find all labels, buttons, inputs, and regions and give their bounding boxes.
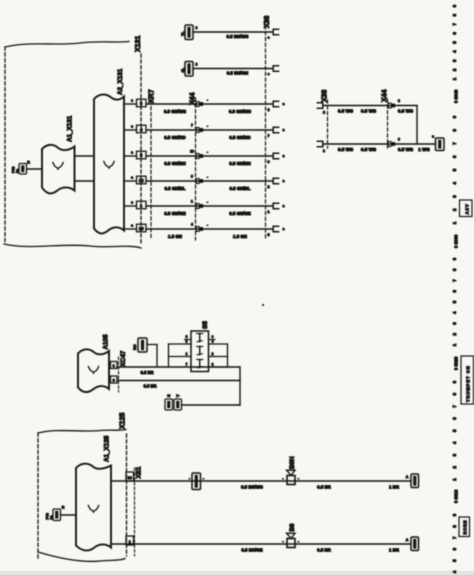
wire track 4 stub A2 to pin <box>124 180 137 182</box>
svg-text:a: a <box>131 99 133 103</box>
control unit dashed box X131 <box>5 42 129 48</box>
svg-text:0.5 WS: 0.5 WS <box>338 147 353 152</box>
svg-text:0.5 BR: 0.5 BR <box>140 370 153 375</box>
svg-text:1: 1 <box>323 149 325 153</box>
svg-text:1 WS: 1 WS <box>418 147 429 152</box>
svg-text:3: 3 <box>186 340 188 344</box>
horn wire 2 <box>111 543 411 545</box>
svg-text:R: R <box>27 161 30 165</box>
inline connector box on wire 1 <box>192 473 201 490</box>
svg-text:a: a <box>131 151 133 155</box>
svg-text:7L: 7L <box>180 31 185 36</box>
svg-text:2: 2 <box>323 111 325 115</box>
svg-text:+: + <box>267 73 269 77</box>
svg-text:a: a <box>283 227 285 231</box>
svg-text:-: - <box>207 223 208 227</box>
svg-text:0.5 GN/WS: 0.5 GN/WS <box>229 109 251 114</box>
terminal box A (wire 1) <box>411 474 419 488</box>
horn B9 <box>287 539 295 548</box>
svg-text:9: 9 <box>398 138 400 142</box>
connector XC47 dashed line <box>118 357 120 392</box>
svg-text:1: 1 <box>113 364 115 368</box>
wire X38 to X44 upper <box>324 105 417 107</box>
connector X44 (right group) dashed line <box>387 99 389 148</box>
svg-text:5: 5 <box>268 233 270 237</box>
source box wire y=32 <box>185 25 193 40</box>
connector A105 <box>78 349 109 392</box>
wire XC47 pin1 (to S5 / ground) <box>117 366 240 368</box>
svg-text:1: 1 <box>268 210 270 214</box>
svg-text:0.5 BR: 0.5 BR <box>143 384 156 389</box>
svg-text:0.5 GN/BN: 0.5 GN/BN <box>229 161 250 166</box>
wire A1 to A2 upper <box>75 155 95 157</box>
wire track 2 stub A2 to pin <box>124 129 137 131</box>
wire track 6 XR7 to X38 <box>146 228 272 230</box>
reference box RC <box>138 338 147 352</box>
svg-text:-: - <box>207 150 208 154</box>
svg-text:a: a <box>283 204 285 208</box>
wire to X38 <box>193 68 272 70</box>
svg-text:3: 3 <box>191 175 193 179</box>
svg-text:1 BR: 1 BR <box>389 547 400 552</box>
svg-text:8: 8 <box>268 108 270 112</box>
svg-text:8: 8 <box>212 362 214 366</box>
svg-text:0 S310: 0 S310 <box>454 489 459 503</box>
svg-text:a: a <box>283 102 285 106</box>
terminal X38 <box>273 66 278 71</box>
svg-text:XR7: XR7 <box>149 89 156 103</box>
S5 ladder left rail <box>168 344 170 367</box>
pin box XR7 pin 10 <box>137 224 147 232</box>
pin box XC47 pin 1 <box>111 362 118 369</box>
S5 rung y367 (on wire) <box>209 366 228 368</box>
switch contact <box>199 334 201 342</box>
svg-text:10: 10 <box>128 476 132 480</box>
svg-text:a: a <box>131 125 133 129</box>
terminal X38 track 1 <box>273 101 278 106</box>
wire track 2 XR7 to X38 <box>146 129 272 131</box>
svg-text:9: 9 <box>196 26 198 30</box>
S5 rung y344 <box>169 343 192 345</box>
svg-text:RC: RC <box>133 344 137 350</box>
pin box XC47 pin 2 <box>111 376 118 383</box>
svg-text:A: A <box>406 475 409 479</box>
svg-text:5: 5 <box>186 335 188 339</box>
connector X44 pass-through track 4 <box>196 179 199 184</box>
svg-text:0.5 BN/WS: 0.5 BN/WS <box>227 34 249 39</box>
connector X38 dashed line <box>265 20 267 240</box>
svg-text:12: 12 <box>139 178 144 183</box>
wire track 3 XR7 to X38 <box>146 155 272 157</box>
svg-text:4: 4 <box>212 340 214 344</box>
svg-text:R: R <box>62 506 65 510</box>
svg-text:2: 2 <box>212 352 214 356</box>
svg-text:-: - <box>207 175 208 179</box>
wire track 4 XR7 to X38 <box>146 180 272 182</box>
wire to ground: corner down <box>239 367 241 405</box>
svg-text:0.5 BR/WS: 0.5 BR/WS <box>241 484 263 489</box>
svg-text:0.5 BN/GN: 0.5 BN/GN <box>227 71 248 76</box>
pin box XE1 pin 10 <box>126 472 134 481</box>
wire RC to node <box>147 344 157 346</box>
wire XC47 pin2 <box>117 380 240 382</box>
svg-text:10: 10 <box>190 150 194 154</box>
svg-text:0 S340: 0 S340 <box>454 89 459 103</box>
terminal X38 track 4 <box>273 178 278 183</box>
svg-text:0.5 GN/BL: 0.5 GN/BL <box>165 186 186 191</box>
svg-text:-: - <box>207 98 208 102</box>
svg-text:X125: X125 <box>120 413 127 429</box>
svg-text:8: 8 <box>398 99 400 103</box>
pin box XR7 pin 12 <box>137 176 147 184</box>
wire corner down <box>416 106 418 145</box>
terminal box A (wire 2) <box>411 537 419 551</box>
connector X44 pass-through track 6 <box>196 227 199 232</box>
svg-text:a: a <box>131 224 133 228</box>
speck <box>262 304 264 306</box>
svg-text:0 S320: 0 S320 <box>454 356 459 370</box>
connector X44 pass-through track 3 <box>196 154 199 159</box>
svg-text:2: 2 <box>113 379 115 383</box>
svg-text:9: 9 <box>191 98 193 102</box>
svg-text:B9: B9 <box>289 523 296 532</box>
svg-text:A105: A105 <box>103 334 110 350</box>
svg-text:XE1: XE1 <box>136 466 143 478</box>
svg-text:a: a <box>283 179 285 183</box>
svg-text:1 BR: 1 BR <box>389 484 400 489</box>
svg-text:S5: S5 <box>202 321 209 329</box>
svg-text:1: 1 <box>191 200 193 204</box>
margin box TRUMPET ON <box>461 356 474 404</box>
svg-text:0.5 WS: 0.5 WS <box>398 147 413 152</box>
connector X38 (right group) dashed line <box>327 100 329 148</box>
connector XE1 dashed line <box>134 468 136 556</box>
switch contact <box>199 347 201 355</box>
svg-text:X44: X44 <box>382 89 389 102</box>
svg-text:0.5 GN/RD: 0.5 GN/RD <box>229 135 250 140</box>
svg-text:A1_X131: A1_X131 <box>67 115 74 142</box>
pin box XR7 pin 5 <box>137 151 147 159</box>
svg-text:A: A <box>406 538 409 542</box>
svg-text:0.5 GN/BN: 0.5 GN/BN <box>164 161 185 166</box>
terminal X38 <box>273 29 278 34</box>
switch S5 body <box>191 331 209 372</box>
svg-text:a: a <box>283 128 285 132</box>
svg-text:7: 7 <box>268 134 270 138</box>
wire track 3 stub A2 to pin <box>124 155 137 157</box>
svg-text:0.5 GN/GE: 0.5 GN/GE <box>229 211 251 216</box>
wire to X38 <box>193 31 272 33</box>
svg-text:1.5 GN: 1.5 GN <box>168 234 182 239</box>
svg-text:TRUMPET ON: TRUMPET ON <box>466 365 471 402</box>
wire P08 to A1_X125 <box>61 514 77 516</box>
connector X44 pass-through track 2 <box>196 128 199 133</box>
terminal X38 pin 2 <box>317 103 322 108</box>
svg-text:10: 10 <box>139 226 144 231</box>
svg-text:0.5 BR/GE: 0.5 BR/GE <box>241 547 262 552</box>
svg-text:0.5 GN/RD: 0.5 GN/RD <box>164 135 185 140</box>
wire A1 to A2 lower <box>75 180 95 182</box>
svg-text:4: 4 <box>191 223 193 227</box>
svg-text:0.5 WS: 0.5 WS <box>338 109 353 114</box>
terminal X38 pin 1 <box>317 141 322 146</box>
svg-text:-: - <box>207 200 208 204</box>
margin box A2V <box>460 200 473 217</box>
wire track 5 stub A2 to pin <box>124 205 137 207</box>
S5 ladder right rail <box>227 344 229 367</box>
svg-text:7: 7 <box>191 124 193 128</box>
connector X44 dashed line <box>195 98 197 240</box>
source box wire y=68.5 <box>185 62 193 77</box>
pin box XE1 pin 1 <box>126 536 134 545</box>
svg-text:4L: 4L <box>180 67 185 72</box>
svg-text:0.5 WS: 0.5 WS <box>398 109 413 114</box>
switch contact <box>199 360 201 368</box>
svg-text:B9H: B9H <box>289 456 296 469</box>
connector A1_X131 <box>42 145 75 194</box>
terminal X38 track 2 <box>273 127 278 132</box>
horn wire 1 <box>111 480 411 482</box>
wire track 1 XR7 to X38 <box>146 103 272 105</box>
terminal X38 track 6 <box>273 226 278 231</box>
terminal 30 box P08 (lower) <box>53 509 61 521</box>
svg-text:1.5 GN: 1.5 GN <box>233 234 247 239</box>
svg-text:HORN: HORN <box>463 520 468 535</box>
S5 rung y356.5 <box>169 356 192 358</box>
svg-text:6: 6 <box>212 335 214 339</box>
connector X44 pass-through track 5 <box>196 204 199 209</box>
svg-text:A2V: A2V <box>465 203 470 214</box>
ground box E <box>165 399 173 410</box>
svg-text:0 S330: 0 S330 <box>454 234 459 248</box>
svg-text:0.5 BR: 0.5 BR <box>317 547 331 552</box>
horn B9H <box>287 476 295 485</box>
svg-text:X131: X131 <box>135 36 142 52</box>
wire X38 to box lower <box>324 143 436 145</box>
svg-text:0.5 WS: 0.5 WS <box>361 109 376 114</box>
connector X44 pass-through lower <box>388 142 391 147</box>
svg-text:6: 6 <box>268 160 270 164</box>
control unit dashed box X125 <box>38 430 126 434</box>
pin box XR7 pin 1 <box>137 201 147 209</box>
terminal X38 track 3 <box>273 153 278 158</box>
svg-text:7: 7 <box>186 362 188 366</box>
svg-text:0.5 GN/GE: 0.5 GN/GE <box>164 211 186 216</box>
svg-text:XC47: XC47 <box>120 350 127 366</box>
pin box XR7 pin 3 <box>137 99 147 107</box>
svg-text:0.5 GN/BL: 0.5 GN/BL <box>230 186 251 191</box>
svg-text:0.5 BR: 0.5 BR <box>317 484 331 489</box>
connector A1_X125 <box>76 464 111 551</box>
svg-text:1: 1 <box>186 352 188 356</box>
svg-text:8: 8 <box>196 63 198 67</box>
terminal X38 track 5 <box>273 203 278 208</box>
svg-text:X38: X38 <box>264 15 271 28</box>
svg-text:2: 2 <box>268 185 270 189</box>
connector A2_X131 <box>94 94 124 233</box>
svg-text:a: a <box>283 154 285 158</box>
ground box V <box>174 399 182 410</box>
svg-text:+: + <box>267 36 269 40</box>
svg-text:a: a <box>131 176 133 180</box>
connector XR7 dashed line <box>150 95 152 238</box>
terminal box a <box>436 138 445 151</box>
svg-text:X38: X38 <box>322 89 329 102</box>
pin box XR7 pin 4 <box>137 125 147 133</box>
margin box HORN <box>459 517 470 537</box>
terminal 30 box P08 <box>19 164 27 175</box>
svg-text:a: a <box>131 201 133 205</box>
S5 top stubs <box>185 339 192 341</box>
svg-text:-: - <box>207 124 208 128</box>
wire track 6 stub A2 to pin <box>124 228 137 230</box>
wire track 5 XR7 to X38 <box>146 205 272 207</box>
svg-text:A1_X125: A1_X125 <box>104 435 111 462</box>
connector X44 pass-through track 1 <box>196 102 199 107</box>
svg-text:A2_X131: A2_X131 <box>117 68 124 95</box>
wire P08 to A1_X131 <box>27 168 43 170</box>
wire track 1 stub A2 to pin <box>124 103 137 105</box>
svg-text:0.5 WS: 0.5 WS <box>361 147 376 152</box>
svg-text:0.5 GN/WS: 0.5 GN/WS <box>164 109 186 114</box>
connector X44 pass-through upper <box>388 103 391 108</box>
